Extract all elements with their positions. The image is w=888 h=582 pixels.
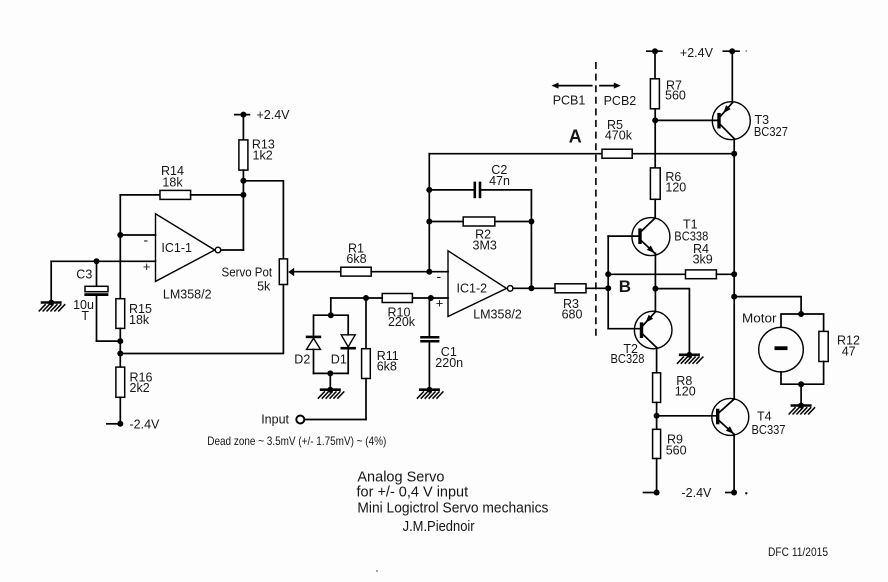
resistor R7 560 [650,51,686,109]
svg-text:Motor: Motor [742,312,777,326]
wire: R15 bottom to R16 top [119,328,121,367]
wire: T1 emitter / T2 emitter vertical [654,253,656,311]
node: junction R13 / servo pot branch [240,178,246,184]
svg-text:D1: D1 [331,353,347,367]
svg-text:5k: 5k [257,280,271,294]
svg-text:220k: 220k [388,315,416,329]
text: title block [357,470,549,535]
node: motor top junction [798,311,804,317]
power -2.4V terminal (bottom, below R9) [644,486,713,500]
wire: R14 left corner down to inverting input and R15 [119,195,121,299]
wire: branch to servo pot top [243,181,283,259]
transistor T3 BC327 (PNP) [712,102,788,140]
wire: +2.4V to R13 [242,115,244,140]
node: diode pair top junction [328,312,334,318]
wire: C2/R2 right side down to output [530,190,532,288]
node: emitter ground junction [652,286,658,292]
wire: non-inverting input rail [51,260,155,262]
svg-text:3M3: 3M3 [473,238,497,252]
diode D2 (cathode up) [294,337,321,374]
ground (motor) [789,403,816,415]
svg-text:-: - [144,232,149,248]
diode D1 (cathode down) [331,335,356,374]
svg-text:560: 560 [665,89,686,103]
resistor R11 6k8 [362,298,399,420]
svg-text:Dead zone ~ 3.5mV (+/- 1.75mV): Dead zone ~ 3.5mV (+/- 1.75mV) ~ (4%) [207,434,386,448]
wire: R6 bottom to T1 collector [654,199,656,218]
wire: T4 base [657,415,717,417]
svg-text:DFC 11/2015: DFC 11/2015 [768,545,828,559]
transistor T2 BC328 (PNP) [611,311,673,366]
node: IC1-1 inverting input junction [117,232,123,238]
node: R2 right junction [528,219,534,225]
wire: T3 base [655,119,717,121]
svg-text:Mini Logictrol Servo mechanics: Mini Logictrol Servo mechanics [357,501,548,517]
node: IC1-2 inverting input junction [426,269,432,275]
faint speck near +2.4V [745,50,747,52]
svg-text:PCB2: PCB2 [604,94,637,108]
svg-text:LM358/2: LM358/2 [163,287,212,301]
resistor R3 680 [555,284,608,322]
power -2.4V terminal (below T4) [726,490,748,496]
servo pot 5k [222,259,295,294]
wire: node A horizontal line [429,153,734,155]
node: motor branch junction [731,294,737,300]
svg-text:LM358/2: LM358/2 [473,307,522,321]
svg-text:B: B [619,277,631,296]
wire: T1 base from B rail [608,235,638,237]
svg-text:T4: T4 [757,410,772,424]
svg-text:PCB1: PCB1 [553,94,586,108]
power +2.4V terminal (above R7) [647,46,714,60]
power -2.4V terminal (left) [107,397,160,431]
resistor R16 [116,367,153,397]
wire: emitters to ground [655,289,689,355]
wire: R7 bottom to R6 top [654,109,656,168]
svg-text:-2.4V: -2.4V [130,417,161,431]
svg-text:IC1-2: IC1-2 [457,282,488,296]
wire: motor top rail [781,314,824,331]
capacitor C2 47n [429,163,531,198]
svg-text:for +/- 0,4 V input: for +/- 0,4 V input [357,485,469,501]
svg-text:560: 560 [666,443,687,457]
node: servo pot bottom junction [117,351,123,357]
wire: IC1-1 output to vertical [221,249,244,251]
wire: T3 emitter up to +2.4V [731,51,733,103]
resistor R14 with feedback wire [120,164,243,199]
svg-text:BC327: BC327 [754,125,788,139]
node: A line right junction [731,151,737,157]
ground (below diodes) [318,387,345,399]
resistor R8 120 [653,373,696,403]
ground (below C1) [417,387,444,399]
resistor R13 [239,138,275,170]
wire: to motor ground [800,384,802,405]
node: C3 junction on + input [94,258,100,264]
svg-text:220n: 220n [435,356,463,370]
wire: IC1-2 plus input [412,297,448,299]
wire: T2 base from B rail [608,328,640,330]
svg-text:-2.4V: -2.4V [682,486,713,500]
ground (left of C3) [39,300,65,312]
wire: R13 bottom vertical down to IC1-1 output level [242,170,244,250]
wire: long run to servo pot bottom [120,285,283,354]
node: junction R14 right / output [240,192,246,198]
svg-text:120: 120 [675,384,696,398]
svg-text:18k: 18k [129,313,150,327]
resistor R12 47 [819,331,860,361]
resistor R15 [116,299,152,329]
node: diode bottom junction [327,370,333,376]
svg-text:680: 680 [562,308,583,322]
power +2.4V terminal (above T3) [723,48,739,54]
node: R2 left junction [426,219,432,225]
capacitor C3 (polarized 10u tantalum) [73,261,120,341]
node: T4 base junction [654,413,660,419]
svg-text:3k9: 3k9 [693,253,713,267]
wire: T2 collector down to R8 [656,348,658,373]
svg-text:BC328: BC328 [611,352,645,366]
wire: diode bottom rail [314,372,349,374]
resistor R4 3k9 [608,242,734,279]
svg-text:Input: Input [261,413,289,427]
node: B rail R4 junction [605,271,611,277]
PCB separation dashed line [595,62,597,338]
wire: motor bottom rail [781,362,824,385]
capacitor C1 220n [420,298,463,390]
svg-text:+2.4V: +2.4V [257,108,291,122]
op-amp IC1-2 [436,251,522,321]
svg-text:47: 47 [842,345,856,359]
svg-text:J.M.Piednoir: J.M.Piednoir [403,519,475,535]
wire: minus input of IC1-1 [120,234,155,236]
wire: R9 to -2.4V [656,459,658,493]
transistor T1 BC338 (NPN) [632,217,708,255]
node: C2 left junction [426,187,432,193]
wire: T4 emitter down to -2.4V [733,434,735,492]
resistor R1 [294,241,449,276]
svg-text:+2.4V: +2.4V [680,46,714,60]
svg-text:D2: D2 [294,353,310,367]
transistor T4 BC337 (NPN) [712,398,786,437]
node: plus input / C1 junction [428,295,434,301]
wire: B rail vertical [607,236,609,329]
wire: down to diode pair split [330,298,332,315]
node: C3 return junction [117,338,123,344]
wire: left down to ground [50,261,52,302]
svg-text:Servo Pot: Servo Pot [222,265,273,279]
svg-text:IC1-1: IC1-1 [161,241,192,255]
svg-text:6k8: 6k8 [377,360,397,374]
wire: T3 collector down / main output rail [733,139,735,399]
motor [742,312,803,372]
wire: IC1-2 output [513,287,555,289]
node: T3 base junction [652,117,658,123]
svg-text:BC337: BC337 [752,423,786,437]
node: motor bottom junction [798,381,804,387]
node: B input junction [605,285,611,291]
svg-text:18k: 18k [162,176,183,190]
svg-text:6k8: 6k8 [346,252,366,266]
svg-text:47n: 47n [489,174,510,188]
resistor R2 3M3 [429,217,531,252]
svg-text:-: - [437,268,442,284]
svg-text:C3: C3 [76,267,92,281]
svg-text:Analog Servo: Analog Servo [357,470,444,486]
resistor R10 220k [331,294,416,329]
PCB1 arrow [552,83,592,108]
input terminal [261,413,366,427]
power +2.4V terminal (left, above R13) [235,108,290,122]
node: R4 right junction on output rail [731,271,737,277]
svg-text:T: T [81,309,89,323]
faint speck bottom edge [376,570,378,572]
resistor R6 120 [650,168,686,199]
resistor R9 560 [653,429,687,458]
wire: to ground [329,373,331,389]
PCB2 arrow [600,83,636,108]
wire: feedback vertical from node A line down to IC1-2 minus input [428,154,430,272]
svg-text:470k: 470k [605,129,633,143]
op-amp IC1-1 [143,214,221,302]
node: R11 top junction [363,295,369,301]
svg-text:A: A [569,127,582,147]
wire: R8 to R9 [656,402,658,429]
svg-text:1k2: 1k2 [253,149,273,163]
svg-text:120: 120 [665,181,686,195]
resistor R5 470k [602,118,633,158]
ground (emitters T1/T2) [677,352,704,364]
svg-text:2k2: 2k2 [130,381,150,395]
wire: motor branch [734,297,801,314]
wire: diode branch rails [314,315,349,337]
node: output junction with feedback [528,285,534,291]
